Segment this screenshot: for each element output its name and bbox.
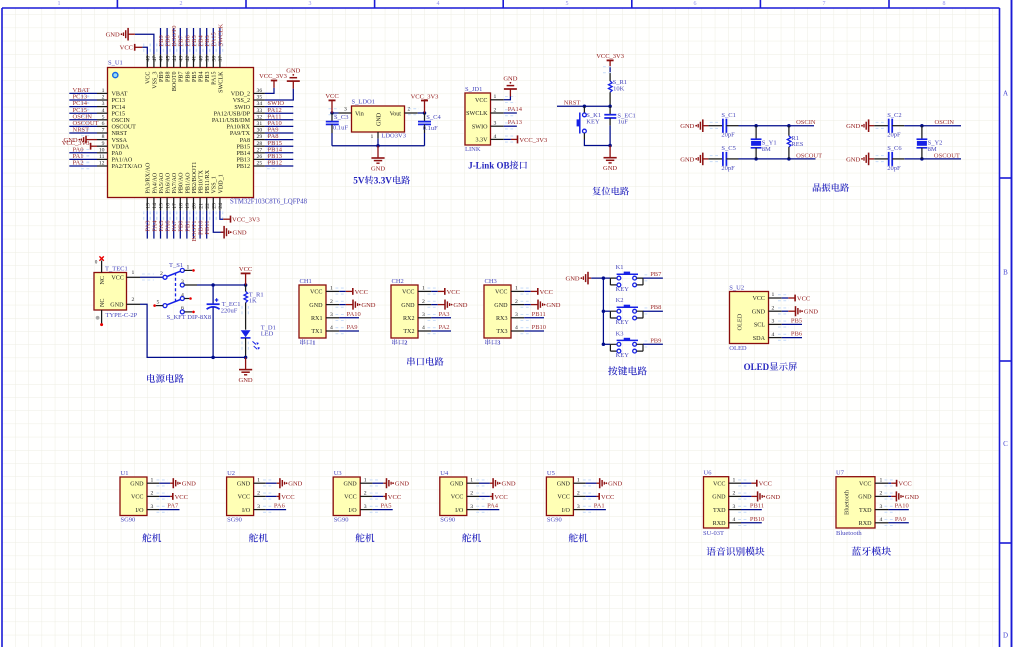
svg-text:24: 24	[218, 203, 224, 209]
pin 2 (VCC) U3	[344, 491, 383, 501]
svg-text:PB7: PB7	[179, 72, 185, 83]
svg-text:2: 2	[364, 491, 367, 497]
svg-text:8: 8	[102, 134, 105, 140]
mcu U1 STM32F103C8T6 body	[108, 68, 254, 198]
svg-text:VCC: VCC	[146, 72, 152, 85]
svg-text:GND: GND	[377, 112, 383, 126]
pin 1 (VCC) T_TEC1	[111, 270, 140, 282]
svg-text:OLED: OLED	[744, 362, 770, 372]
designator S_Y1	[762, 139, 777, 146]
servo connector U4 body	[440, 477, 467, 516]
wire U1 pin36 to VCC_3V3	[265, 88, 274, 94]
pin 43 (PB7) U1 top	[177, 28, 185, 82]
svg-text:GND: GND	[680, 156, 694, 163]
net label PA10	[268, 120, 282, 127]
pin 3 (RX3) CH3	[496, 312, 544, 322]
wire JD1 pin1 to GND	[504, 97, 511, 100]
svg-text:Vout: Vout	[390, 111, 402, 117]
svg-text:I/O: I/O	[242, 508, 251, 514]
svg-text:PA3/RX/AO: PA3/RX/AO	[146, 162, 152, 194]
svg-text:PA10: PA10	[347, 311, 361, 318]
capacitor S_C6 20pF	[874, 152, 904, 166]
net label BOOT1	[191, 221, 198, 242]
svg-text:VSS_2: VSS_2	[233, 98, 250, 104]
pin 2 (Vout) S_LDO1	[390, 107, 418, 118]
net label PA8	[268, 133, 279, 140]
svg-text:48: 48	[146, 56, 152, 62]
pin 48 (VCC) U1 top	[144, 44, 152, 85]
svg-text:4: 4	[880, 517, 883, 523]
pin 31 (PA10/RX) U1 right	[227, 121, 294, 131]
svg-text:40: 40	[198, 56, 204, 62]
pin 2 (GND) CH1	[309, 299, 346, 309]
svg-text:C: C	[1003, 440, 1008, 448]
pin 1 (GND) U2	[237, 477, 277, 487]
svg-text:VCC: VCC	[238, 495, 251, 501]
svg-text:14: 14	[152, 203, 158, 209]
svg-text:18: 18	[179, 203, 185, 209]
ground GND at U1 pin 8 VSSA	[64, 136, 97, 144]
pin 1 (VCC) CH3	[495, 286, 532, 296]
pin 4 (RXD) U6	[713, 517, 762, 527]
ground GND at U6 pin 2	[751, 491, 780, 501]
svg-text:VCC: VCC	[388, 494, 401, 501]
ground GND at JD1 pin 1	[503, 75, 517, 96]
svg-text:VCC: VCC	[281, 494, 294, 501]
value KEY K3	[616, 352, 630, 359]
svg-text:3: 3	[181, 279, 184, 285]
svg-text:26: 26	[257, 154, 263, 160]
value 220uF	[221, 307, 238, 314]
svg-text:3: 3	[151, 504, 154, 510]
svg-text:SG90: SG90	[440, 517, 455, 524]
net label PC15	[73, 107, 87, 114]
svg-text:VCC_3V3: VCC_3V3	[259, 73, 287, 80]
svg-text:PB11: PB11	[750, 503, 764, 510]
pin 1 (GND) U3	[343, 477, 383, 487]
pin 2 (GND) U7	[858, 491, 895, 501]
pin 5 (OSCIN) U1 left	[69, 114, 130, 124]
connector CH2 body	[391, 285, 418, 338]
svg-text:PA14: PA14	[508, 106, 523, 113]
svg-text:PB14: PB14	[236, 151, 250, 157]
ground GND at U1 pin 1	[170, 478, 196, 488]
svg-text:1: 1	[102, 88, 105, 94]
svg-text:PA8: PA8	[240, 138, 250, 144]
net label PB11	[204, 221, 211, 235]
switch T_S1 S_KFT DIP-8X8	[153, 262, 195, 314]
pin 4 (3.3V) S_JD1	[475, 134, 516, 144]
svg-text:VCC: VCC	[540, 289, 553, 296]
value KEY K1	[616, 286, 630, 293]
value SG90 U1	[121, 517, 136, 524]
power VCC_3V3 reset	[596, 53, 624, 66]
value 8M Y2	[928, 146, 937, 153]
net label PC14	[73, 100, 88, 107]
net label PB5	[791, 317, 802, 324]
svg-text:0.1uF: 0.1uF	[423, 125, 438, 132]
svg-text:GND: GND	[233, 230, 247, 237]
svg-text:U3: U3	[334, 470, 342, 477]
svg-text:VCC_3V3: VCC_3V3	[519, 137, 547, 144]
ground GND at U1 pin 47	[106, 28, 135, 41]
ground GND at U4 pin 1	[490, 478, 516, 488]
svg-text:2: 2	[180, 1, 183, 7]
svg-text:PC13: PC13	[112, 98, 126, 104]
pin 3 (I/O) U2	[242, 504, 286, 514]
svg-text:GND: GND	[712, 495, 726, 501]
ground GND at CH1 pin 2	[346, 300, 376, 310]
pin 21 (PB10/TX) U1 bottom	[197, 170, 205, 239]
svg-text:15: 15	[159, 203, 165, 209]
connector CH3 body	[484, 285, 511, 338]
net label PA6	[165, 220, 172, 232]
power VCC_3V3 at U1 pin 36	[259, 73, 287, 88]
svg-text:42: 42	[185, 56, 191, 62]
svg-text:27: 27	[257, 147, 263, 153]
svg-text:1: 1	[880, 477, 883, 483]
svg-text:2: 2	[577, 491, 580, 497]
value TYPE-C-2P	[106, 312, 138, 319]
net label PB10	[532, 324, 546, 331]
resistor R1 RES feedback	[787, 126, 791, 159]
svg-text:6: 6	[694, 1, 697, 7]
button K1 KEY	[610, 272, 643, 287]
svg-text:S_JD1: S_JD1	[465, 86, 482, 93]
designator S_C1	[721, 112, 735, 119]
svg-text:5V: 5V	[353, 176, 365, 186]
value SG90 U4	[440, 517, 455, 524]
svg-text:S_C4: S_C4	[426, 114, 441, 121]
capacitor S_C3 0.1uF	[326, 113, 339, 146]
svg-text:PA1: PA1	[594, 503, 605, 510]
svg-text:20pF: 20pF	[887, 132, 901, 139]
svg-text:PA5/AO: PA5/AO	[159, 172, 165, 193]
svg-text:SWCLK: SWCLK	[218, 71, 224, 93]
svg-text:PB15: PB15	[236, 144, 250, 150]
svg-text:U4: U4	[440, 470, 449, 477]
svg-text:3: 3	[880, 504, 883, 510]
wire OSCOUT rail right-crystal	[904, 157, 961, 161]
designator K2	[616, 297, 624, 304]
net label PB6	[184, 35, 191, 47]
svg-text:VCC: VCC	[175, 494, 188, 501]
capacitor S_C5 20pF	[708, 152, 738, 166]
svg-text:TX1: TX1	[311, 329, 322, 335]
svg-text:S_C5: S_C5	[721, 145, 735, 152]
svg-text:RES: RES	[791, 141, 803, 148]
svg-text:GND: GND	[608, 481, 622, 488]
svg-text:PA10/RX: PA10/RX	[227, 125, 251, 131]
svg-text:KEY: KEY	[616, 352, 630, 359]
value KEY reset	[586, 119, 600, 126]
svg-text:3: 3	[772, 319, 775, 325]
svg-text:2: 2	[494, 107, 497, 113]
svg-text:GND: GND	[106, 32, 120, 39]
svg-text:3.3V: 3.3V	[475, 138, 488, 144]
power VCC at CH2 pin 1	[438, 288, 460, 296]
net label PA4	[151, 220, 158, 232]
svg-text:1: 1	[364, 477, 367, 483]
net label PA1	[73, 153, 84, 160]
svg-text:GND: GND	[557, 481, 571, 487]
svg-text:VCC_3V3: VCC_3V3	[411, 93, 439, 100]
net label NRST	[73, 127, 90, 134]
ground GND at S_U2 pin 2	[788, 306, 818, 316]
pin 27 (PB14) U1 right	[236, 147, 293, 157]
svg-text:41: 41	[192, 56, 198, 62]
svg-text:K3: K3	[616, 330, 624, 337]
pin 4 (TX3) CH3	[496, 325, 544, 335]
svg-text:12: 12	[99, 161, 105, 167]
svg-text:S_U2: S_U2	[729, 285, 744, 292]
svg-text:K1: K1	[616, 264, 624, 271]
pin 28 (PB15) U1 right	[236, 141, 293, 151]
svg-text:4: 4	[515, 325, 518, 331]
svg-text:VCC: VCC	[494, 494, 507, 501]
svg-text:3.3V: 3.3V	[374, 176, 392, 186]
svg-text:1: 1	[151, 477, 154, 483]
power VCC at LDO input	[325, 93, 338, 113]
servo connector U3 body	[333, 477, 360, 516]
svg-text:2: 2	[772, 305, 775, 311]
svg-text:SU-03T: SU-03T	[703, 530, 724, 537]
value 20pF S_C2	[887, 132, 901, 139]
svg-text:VSSA: VSSA	[112, 138, 128, 144]
pin 1 (VCC) CH2	[402, 286, 439, 296]
svg-text:PC15: PC15	[112, 111, 126, 117]
value LINK	[465, 146, 481, 153]
pin 1 (VCC) S_U2	[752, 292, 789, 302]
svg-text:PA4/AO: PA4/AO	[152, 172, 158, 193]
servo connector U1 body	[120, 477, 147, 516]
net label PA3	[145, 221, 152, 232]
svg-text:PA7/AO: PA7/AO	[172, 172, 178, 193]
value 串口3	[485, 339, 500, 346]
svg-text:U5: U5	[547, 470, 555, 477]
svg-text:GND: GND	[503, 75, 517, 82]
wire LDO ground rail	[332, 139, 425, 148]
net label PB12	[268, 160, 282, 167]
net label PA7	[167, 503, 179, 510]
caption crystal circuit	[813, 183, 849, 192]
svg-text:5: 5	[102, 114, 105, 120]
svg-text:28: 28	[257, 141, 263, 147]
ground GND at U1 pin 23	[221, 226, 247, 239]
connector S_JD1 body	[465, 93, 491, 145]
pin 32 (PA11/USB/DM) U1 right	[212, 114, 293, 124]
svg-text:SWIO: SWIO	[234, 105, 250, 111]
pin 2 (VCC) U4	[451, 491, 490, 501]
pin 37 (SWCLK) U1 top	[216, 28, 224, 93]
svg-text:3: 3	[422, 312, 425, 318]
designator S_C3	[334, 114, 348, 121]
svg-text:PB9: PB9	[650, 337, 661, 344]
svg-text:NC: NC	[100, 299, 106, 307]
led T_D1 LED	[241, 306, 260, 357]
svg-text:PA7: PA7	[167, 503, 179, 510]
svg-text:OLED: OLED	[737, 313, 744, 330]
net label PB11 U6	[750, 503, 764, 510]
pin 3 (PC14) U1 left	[69, 101, 125, 111]
wire OSCIN rail right-crystal	[904, 124, 961, 128]
net label PA6	[274, 503, 286, 510]
caption OLED display	[744, 362, 798, 372]
value SG90 U3	[334, 517, 349, 524]
svg-text:GND: GND	[395, 481, 409, 488]
value KEY K2	[616, 319, 630, 326]
designator T_D1	[261, 324, 276, 331]
svg-text:19: 19	[185, 203, 191, 209]
designator U1	[121, 470, 129, 477]
value 1uF	[618, 119, 629, 126]
pin 45 (PB8) U1 top	[164, 28, 172, 82]
pin 4 (TX2) CH2	[403, 325, 451, 335]
ground GND at S_C1 (top)	[680, 119, 708, 132]
pin 2 (VCC) U2	[238, 491, 277, 501]
svg-text:PA10: PA10	[895, 503, 909, 510]
svg-text:VCC: VCC	[111, 276, 124, 282]
svg-text:VCC: VCC	[752, 296, 765, 302]
wire buttons common column	[591, 276, 610, 346]
pin 3 (TXD) U7	[859, 504, 909, 514]
pin NC top T_TEC1 with no-connect	[95, 256, 106, 284]
svg-text:3: 3	[494, 121, 497, 127]
pin 10 (PA0) U1 left	[69, 147, 121, 157]
pin 3 (SWIO) S_JD1	[472, 121, 516, 131]
svg-text:NRST: NRST	[564, 99, 581, 106]
value S_KFT DIP-8X8	[167, 314, 211, 321]
caption 5V to 3.3V circuit	[353, 176, 410, 186]
svg-text:PA0: PA0	[112, 151, 122, 157]
net label PB8	[165, 35, 172, 46]
svg-text:GND: GND	[309, 303, 323, 309]
svg-text:2: 2	[132, 297, 135, 303]
svg-text:VCC: VCC	[239, 266, 252, 273]
designator S_C6	[887, 145, 902, 152]
net label VBAT	[73, 87, 90, 94]
svg-text:NRST: NRST	[112, 131, 128, 137]
wire JD1 pin4 to VCC_3V3	[504, 138, 511, 140]
net label PB6	[791, 331, 803, 338]
pin 23 (VSS_1) U1 bottom	[210, 176, 218, 221]
svg-text:2: 2	[733, 491, 736, 497]
wire OSCOUT rail left-crystal	[739, 157, 816, 161]
svg-text:OSCIN: OSCIN	[796, 119, 816, 126]
wire VCC_3V3 to R1	[603, 67, 613, 74]
svg-text:GND: GND	[371, 165, 385, 172]
capacitor S_C1 20pF	[708, 119, 738, 133]
designator S_R1	[613, 79, 627, 86]
svg-text:BOOT0: BOOT0	[172, 72, 178, 92]
designator S_K1	[586, 112, 601, 119]
power VCC_3V3 at LDO output	[411, 93, 439, 113]
svg-text:GND: GND	[603, 165, 617, 172]
svg-text:39: 39	[205, 56, 211, 62]
pin 29 (PA8) U1 right	[240, 134, 294, 144]
pin 6 (OSCOUT) U1 left	[69, 121, 136, 131]
svg-text:33: 33	[257, 108, 263, 114]
net label PA0	[73, 146, 84, 153]
net label PA15	[211, 32, 218, 46]
pin 2 (VCC) U1	[131, 491, 170, 501]
svg-text:3: 3	[515, 312, 518, 318]
svg-text:CH3: CH3	[485, 278, 497, 285]
svg-text:TXD: TXD	[713, 508, 726, 514]
pin 1 (GND) U4	[450, 477, 490, 487]
ground GND buttons	[566, 272, 592, 285]
svg-text:KEY: KEY	[586, 119, 600, 126]
svg-text:32: 32	[257, 114, 263, 120]
ground GND at S_C6 (bottom)	[846, 153, 874, 166]
pin 3 (I/O) U1	[135, 504, 179, 514]
pin 2 (GND) T_TEC1	[110, 297, 140, 309]
svg-text:GND: GND	[846, 123, 860, 130]
svg-text:3: 3	[102, 101, 105, 107]
svg-text:1: 1	[330, 286, 333, 292]
svg-text:PB12: PB12	[268, 160, 282, 167]
svg-text:RX3: RX3	[496, 316, 508, 322]
pin 36 (VDD_2) U1 right	[231, 88, 265, 98]
svg-text:OLED: OLED	[729, 345, 747, 352]
designator S_C5	[721, 145, 735, 152]
svg-text:VCC: VCC	[495, 290, 508, 296]
pin 2 (SWCLK) S_JD1	[466, 107, 516, 117]
svg-text:PB12: PB12	[236, 164, 250, 170]
servo connector U2 body	[227, 477, 254, 516]
svg-text:1K: 1K	[249, 298, 257, 305]
svg-text:9: 9	[102, 141, 105, 147]
svg-text:PA2: PA2	[73, 160, 84, 167]
svg-text:2: 2	[330, 299, 333, 305]
svg-text:GND: GND	[546, 302, 560, 309]
wire Vout to VCC_3V3 node	[408, 109, 426, 115]
svg-text:6: 6	[181, 306, 184, 312]
svg-text:1: 1	[371, 134, 374, 140]
net label PB11	[532, 311, 546, 318]
svg-text:PB11/RX: PB11/RX	[205, 169, 211, 193]
svg-text:4: 4	[494, 134, 497, 140]
svg-text:1: 1	[257, 477, 260, 483]
svg-text:35: 35	[257, 95, 263, 101]
designator CH3	[485, 278, 497, 285]
voice module U6 body	[704, 477, 729, 528]
svg-text:I/O: I/O	[349, 508, 358, 514]
net label PB4	[198, 35, 205, 47]
svg-text:S_C3: S_C3	[334, 114, 348, 121]
svg-text:CH2: CH2	[392, 278, 404, 285]
pin 3 (I/O) U4	[455, 504, 499, 514]
designator S_C2	[887, 112, 901, 119]
svg-text:29: 29	[257, 134, 263, 140]
svg-text:OSCOUT: OSCOUT	[796, 152, 822, 159]
ground GND power circuit	[239, 357, 253, 384]
pin 18 (PB0/AO) U1 bottom	[177, 172, 185, 239]
wire U1 pin47 to GND	[135, 34, 154, 54]
svg-text:4: 4	[330, 325, 333, 331]
net label PA12	[268, 107, 282, 114]
net label OSCIN (right)	[935, 119, 955, 126]
svg-text:2: 2	[408, 107, 411, 113]
power VCC at U6 pin 1	[751, 480, 772, 488]
pin 25 (PB12) U1 right	[236, 161, 293, 171]
pin NC bottom T_TEC1 with no-connect	[96, 299, 106, 327]
svg-text:VCC: VCC	[898, 481, 911, 488]
wire switch pin3 to VCC node	[184, 283, 247, 287]
value 串口2	[392, 339, 407, 346]
button K3 KEY	[610, 338, 643, 353]
svg-text:SWCLK: SWCLK	[217, 23, 224, 46]
